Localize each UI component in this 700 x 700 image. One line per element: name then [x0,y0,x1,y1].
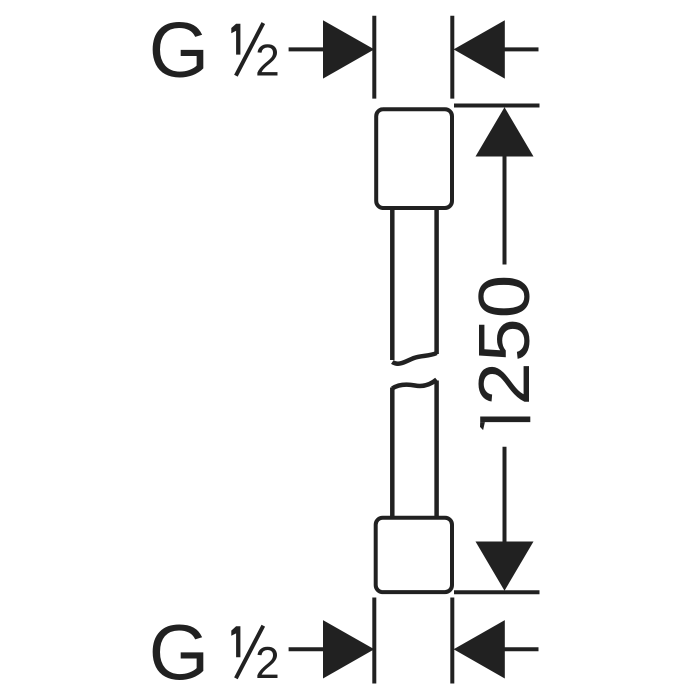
length dimension line lower part [503,447,507,544]
bottom width dimension right tail line [503,647,539,651]
top width dimension right arrowhead [454,20,505,78]
hose lower segment left edge [390,388,395,517]
fraction slash top [236,23,263,76]
hose lower segment right edge [434,381,439,517]
length dimension top arrowhead [476,107,534,156]
bottom extension line right [450,598,454,684]
svg-text:G: G [149,8,209,94]
label G 1/2 top [149,8,280,94]
svg-text:2: 2 [255,36,280,85]
bottom extension line left [372,598,376,684]
bottom hose fitting nut [376,518,452,592]
hose upper segment left edge [390,208,395,360]
svg-text:250: 250 [464,275,544,406]
svg-text:2: 2 [255,639,280,688]
length dimension bottom extension line [454,590,540,594]
length dimension top extension line [454,104,540,108]
bottom width dimension left arrowhead [323,620,374,678]
hose upper segment break curve [392,353,436,364]
svg-text:G: G [149,610,209,696]
length dimension bottom arrowhead [476,542,534,591]
length dimension line upper part [503,155,507,265]
hose lower segment break curve [392,380,436,389]
fraction slash bottom [236,626,263,679]
length value 1250 [464,275,544,430]
bottom width dimension left tail line [289,647,326,651]
top width dimension left arrowhead [323,20,374,78]
label G 1/2 bottom [149,610,280,696]
top width dimension left tail line [289,47,326,51]
hose upper segment right edge [434,208,439,354]
top extension line right [450,16,454,99]
top width dimension right tail line [503,47,539,51]
bottom width dimension right arrowhead [454,620,505,678]
top hose fitting nut [376,109,452,208]
top extension line left [372,16,376,99]
